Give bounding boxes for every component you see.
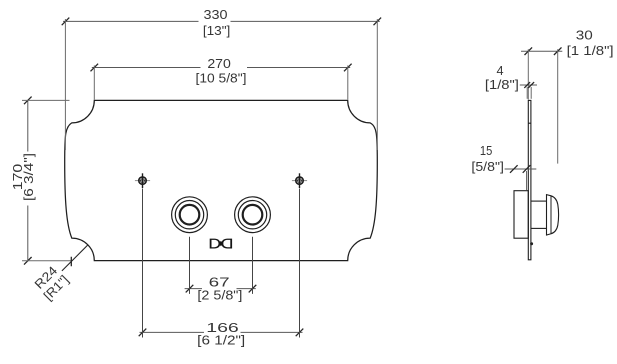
svg-text:[13"]: [13"] (203, 24, 231, 38)
svg-text:[6 1/2"]: [6 1/2"] (197, 333, 245, 347)
svg-text:270: 270 (207, 57, 231, 71)
svg-text:15: 15 (480, 144, 492, 158)
svg-text:[10 5/8"]: [10 5/8"] (196, 72, 247, 86)
svg-text:[1 1/8"]: [1 1/8"] (567, 44, 614, 58)
svg-text:330: 330 (204, 8, 228, 22)
svg-text:4: 4 (496, 64, 503, 78)
svg-text:[5/8"]: [5/8"] (471, 160, 504, 174)
svg-text:[2 5/8"]: [2 5/8"] (197, 289, 242, 303)
svg-text:67: 67 (209, 276, 230, 290)
svg-text:[6 3/4"]: [6 3/4"] (22, 153, 36, 201)
svg-text:[1/8"]: [1/8"] (485, 78, 519, 92)
svg-text:30: 30 (576, 28, 593, 42)
